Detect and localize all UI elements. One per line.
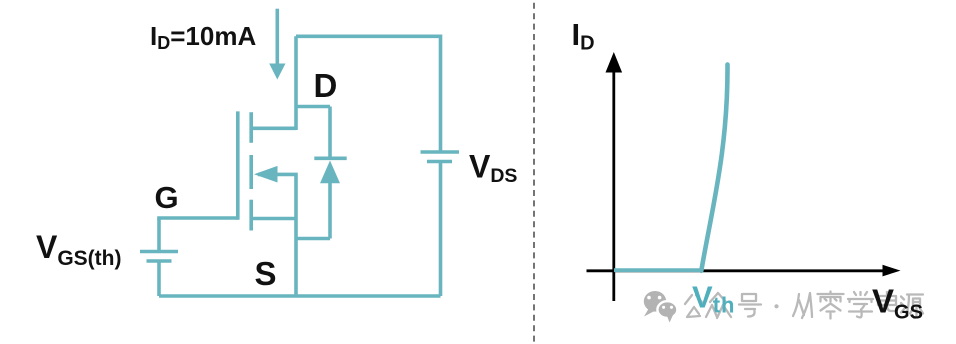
svg-text:D: D (314, 67, 338, 104)
svg-text:S: S (255, 255, 277, 292)
svg-text:G: G (155, 180, 179, 215)
